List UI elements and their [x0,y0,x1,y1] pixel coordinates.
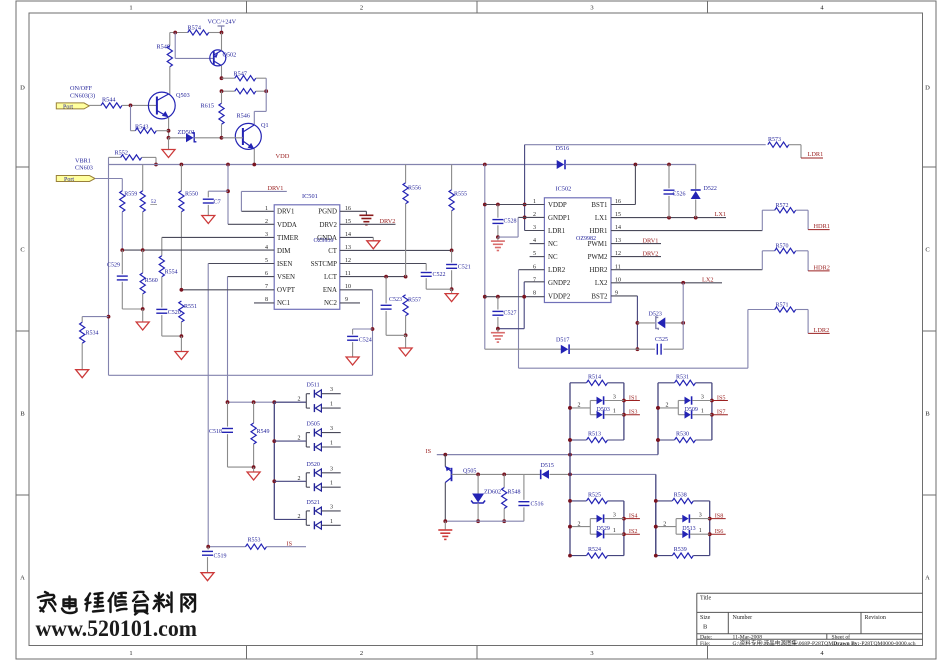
svg-text:LX2: LX2 [595,280,608,287]
svg-text:2: 2 [663,521,666,527]
IC controller IC502 box [544,198,611,303]
svg-text:Port: Port [64,177,74,183]
ground under C527 (earth bars) [497,329,499,333]
svg-text:R514: R514 [588,374,601,380]
wire VSEN vertical down [227,277,229,403]
svg-text:VDD: VDD [276,153,290,160]
svg-text:IS: IS [426,448,432,455]
svg-text:3: 3 [590,650,593,657]
wire IC502 LDR2 pin6 to bottom loop [519,269,545,271]
svg-text:R534: R534 [86,331,99,337]
svg-text:ISEN: ISEN [277,261,292,268]
wire Q505 bottom rail [445,520,524,522]
svg-text:LCT: LCT [324,274,338,281]
svg-text:LDR1: LDR1 [548,228,566,235]
wire IC502 GNDP2 pin7 loop [524,281,544,283]
svg-text:1: 1 [330,519,333,525]
svg-text:2: 2 [298,476,301,482]
svg-text:R544: R544 [102,97,115,104]
wire IC502 PWM2 pin12 stub [611,256,661,258]
wire IC502 BST1 pin16 [611,204,635,206]
label IS8 [710,518,726,520]
svg-text:C528: C528 [504,218,517,224]
wire IC502 HDR2 pin11 to R570 [611,269,762,271]
label IS5 [712,400,728,402]
svg-text:R539: R539 [674,547,687,553]
wire VDDP left vertical (bus to D517 line) [484,165,486,350]
svg-text:DRV1: DRV1 [643,238,659,245]
svg-text:SSTCMP: SSTCMP [311,261,338,268]
svg-text:LX1: LX1 [595,215,608,222]
wire LX2 vertical [682,283,684,349]
svg-text:C524: C524 [359,338,372,344]
wire VDD bus right of D516 [565,164,696,166]
svg-text:VDDA: VDDA [277,222,297,229]
wire long horizontal to ENA [109,374,373,376]
svg-text:ENA: ENA [323,287,337,294]
title block [697,592,923,594]
svg-text:C: C [925,247,929,254]
svg-text:R554: R554 [165,269,178,275]
wire IC501 ISEN pin5 [208,263,274,265]
svg-text:3: 3 [330,426,333,432]
svg-text:C: C [20,247,24,254]
svg-text:IS: IS [287,540,293,547]
ground under C528 (earth bars) [497,237,499,241]
svg-text:LDR2: LDR2 [548,267,566,274]
ground under C519 [201,573,214,581]
svg-text:3: 3 [330,504,333,510]
svg-text:LX1: LX1 [715,211,727,218]
svg-text:D522: D522 [704,186,717,192]
resistor R561 (small label) [142,165,144,191]
svg-text:B: B [703,624,707,631]
svg-text:G:\资料专用\液晶电源图集\068P-P28TQMDraw: G:\资料专用\液晶电源图集\068P-P28TQMDrawn By:-P28T… [733,639,916,647]
svg-text:GNDP2: GNDP2 [548,280,571,287]
label IS4 [624,518,640,520]
svg-text:GNDP1: GNDP1 [548,215,571,222]
svg-text:Size: Size [700,615,711,621]
wire Q1 base [222,137,243,139]
wire IC502 LX1 pin15 [611,217,726,219]
wire Q1 emitter to VDD bus [253,149,255,165]
svg-text:IS1: IS1 [629,394,638,401]
svg-text:IS2: IS2 [629,528,638,535]
svg-text:Q502: Q502 [223,52,237,59]
svg-text:3: 3 [613,512,616,518]
svg-text:NC: NC [548,241,558,248]
label IS7 [712,414,728,416]
wire IC502 NC pin4 stub [530,243,545,245]
wire D515 line to right groups [570,473,656,475]
svg-text:1: 1 [265,206,268,212]
svg-text:1: 1 [129,650,132,657]
wire IC501 DIM pin4 [122,249,274,251]
wire IC502 PWM1 pin13 stub [611,243,661,245]
ground GNDA [372,237,374,240]
node VCC junction [220,31,224,35]
svg-text:HDR1: HDR1 [590,228,609,235]
svg-text:C527: C527 [504,310,517,316]
svg-text:1: 1 [330,402,333,408]
svg-text:LX2: LX2 [702,276,714,283]
svg-text:7: 7 [533,277,536,283]
wire IC501 NC1 pin8 stub [254,302,274,304]
IC op-amp/controller IC501 box [274,205,340,309]
svg-text:DRV2: DRV2 [380,218,396,225]
svg-text:IS4: IS4 [629,512,638,519]
svg-text:3: 3 [590,5,593,12]
capacitor C524 [353,328,373,330]
watermark chinese characters [38,592,195,615]
label IS1 [624,400,640,402]
svg-text:B: B [20,411,25,418]
svg-text:R550: R550 [185,192,198,198]
wire D509 group verticals [657,383,659,440]
svg-text:C520: C520 [168,310,181,316]
svg-text:DRV2: DRV2 [643,251,659,258]
svg-text:PGND: PGND [318,209,337,216]
wire IC501 CT pin13 [340,249,452,251]
svg-text:BST1: BST1 [591,202,608,209]
port ON/OFF [56,103,89,109]
svg-text:C525: C525 [655,337,668,343]
wire IC502 LDR1 pin3 [525,230,545,232]
wire Q505 base right [452,473,524,475]
svg-text:C518: C518 [209,429,222,435]
svg-text:A: A [925,575,930,582]
svg-text:B: B [925,411,930,418]
svg-text:HDR2: HDR2 [590,267,609,274]
svg-text:VBR1: VBR1 [75,157,91,164]
svg-text:Q1: Q1 [261,122,269,129]
wire R574 to R549 [169,33,171,46]
svg-text:1: 1 [613,409,616,415]
svg-text:File:: File: [700,641,711,647]
svg-text:R513: R513 [588,432,601,438]
svg-text:3: 3 [330,466,333,472]
resistor R546 (parallel) [222,90,235,92]
wire D503 group verticals [569,383,571,440]
svg-text:1: 1 [129,5,132,12]
wire left rail (R552 to lower area) [108,157,110,375]
wire Q502 emitter to VCC [221,33,223,51]
svg-text:1: 1 [699,528,702,534]
wire IC501 ENA pin10 [340,289,373,291]
svg-text:DRV2: DRV2 [320,222,338,229]
svg-text:2: 2 [298,397,301,403]
wire VDD bus [109,164,558,166]
svg-text:D: D [925,85,930,92]
svg-text:BST2: BST2 [591,293,608,300]
svg-text:VDDP: VDDP [548,202,567,209]
svg-text:Q503: Q503 [176,92,190,99]
wire IC502 VDDP2 pin8 [485,296,545,298]
svg-text:2: 2 [360,5,363,12]
svg-text:CN603(3): CN603(3) [70,93,95,100]
ground under R551 [180,336,182,351]
svg-text:A: A [20,575,25,582]
svg-text:R549: R549 [257,429,270,435]
wire IC501 TIMER pin3 [162,236,274,238]
wire IC502 NC pin5 stub [530,256,545,258]
svg-text:R548: R548 [508,490,521,496]
svg-text:NC1: NC1 [277,300,291,307]
svg-text:2: 2 [298,514,301,520]
svg-text:3: 3 [330,387,333,393]
wire IC502 HDR1 pin14 to R572 [611,230,762,232]
wire right side of R547/R546 to Q1 collector [265,78,267,111]
svg-text:R531: R531 [676,374,689,380]
wire VBR1 port to R559 [95,178,122,180]
svg-text:R553: R553 [248,538,261,544]
ground under R557/C523 [405,335,407,348]
svg-text:CT: CT [328,248,338,255]
svg-text:D515: D515 [541,463,554,469]
svg-text:Sheet of: Sheet of [832,633,851,640]
svg-text:D520: D520 [307,462,320,468]
svg-text:IS3: IS3 [629,409,638,416]
svg-text:2: 2 [578,521,581,527]
svg-text:R555: R555 [454,192,467,198]
wire top loop (LDR1 net) [525,144,766,146]
svg-text:LDR1: LDR1 [808,151,824,158]
svg-text:HDR1: HDR1 [814,223,830,230]
svg-text:8: 8 [533,290,536,296]
svg-text:R615: R615 [201,103,214,110]
svg-text:R551: R551 [184,304,197,310]
svg-text:ZD602: ZD602 [484,490,501,496]
svg-text:D511: D511 [307,383,320,389]
svg-text:CN603: CN603 [75,165,93,172]
wire IS line [437,454,658,456]
svg-text:R557: R557 [408,298,421,304]
label IS2 [624,533,640,535]
wire IC502 GNDP1 pin2 loop [518,216,544,218]
svg-text:Port: Port [63,104,73,110]
svg-text:C523: C523 [389,297,402,303]
svg-text:3: 3 [699,512,702,518]
resistor R534 [82,316,108,318]
label IS3 [624,414,640,416]
svg-text:PWM2: PWM2 [588,254,608,261]
svg-text:OVPT: OVPT [277,287,296,294]
wire Q502 base [173,31,177,35]
svg-text:2: 2 [298,436,301,442]
svg-text:1: 1 [613,528,616,534]
svg-text:Date:: Date: [700,634,713,640]
svg-text:R530: R530 [676,432,689,438]
svg-text:R559: R559 [124,192,137,198]
ground under C7 [207,210,209,216]
svg-text:Revision: Revision [865,615,886,621]
svg-text:3: 3 [613,394,616,400]
wire IC501 SSTCMP pin12 [340,263,426,265]
wire IC502 VDDP pin1 [485,204,545,206]
wire IC501 GNDA pin14 [340,236,374,238]
wire D513 group verticals [655,501,657,556]
ground under R534 [76,370,89,378]
svg-text:7: 7 [265,284,268,290]
svg-text:GNDA: GNDA [317,235,337,242]
svg-text:IS7: IS7 [717,409,726,416]
ground under C524 [352,352,354,357]
svg-text:R556: R556 [408,186,421,192]
wire Q502 collector down [221,66,223,79]
svg-text:1: 1 [330,481,333,487]
svg-text:LDR2: LDR2 [814,327,830,334]
svg-text:www.520101.com: www.520101.com [36,616,198,642]
ground under Q505 (earth bars) [444,521,446,530]
svg-text:2: 2 [666,403,669,409]
svg-text:Number: Number [733,615,753,621]
wire IC501 VSEN pin6 [228,276,275,278]
svg-text:VSEN: VSEN [277,274,295,281]
svg-text:IC501: IC501 [302,193,318,200]
svg-text:2: 2 [360,650,363,657]
svg-text:D: D [20,85,25,92]
svg-text:D516: D516 [556,145,570,152]
svg-text:IS6: IS6 [715,528,724,535]
svg-text:C529: C529 [107,263,120,269]
wire group2 vertical to IS line [657,440,659,455]
svg-text:NC2: NC2 [324,300,338,307]
svg-text:HDR2: HDR2 [814,264,830,271]
port VBR1 [56,176,95,182]
svg-text:R524: R524 [588,547,601,553]
ground under R549b [253,467,255,472]
svg-text:D505: D505 [307,422,320,428]
wire IC501 PGND pin16 [340,210,367,212]
wire group1 vertical through IS and D515 lines [569,440,571,501]
svg-text:11-Mar-2008: 11-Mar-2008 [733,634,763,640]
svg-text:1: 1 [701,409,704,415]
wire ISEN vertical to IS sense [207,264,209,547]
svg-text:C516: C516 [531,502,544,508]
node bus junctions [180,163,184,167]
ground under Q503 emitter [168,138,170,150]
svg-text:ON/OFF: ON/OFF [70,85,93,92]
wire IC501 DRV2 pin15 [340,223,396,225]
wire C518 node horizontal [228,401,307,403]
svg-text:Q505: Q505 [463,469,476,475]
svg-text:VDDP2: VDDP2 [548,293,571,300]
wire D529 group verticals [569,501,571,556]
svg-text:Title: Title [700,596,711,602]
svg-text:R538: R538 [674,492,687,498]
svg-text:D521: D521 [307,500,320,506]
ground under C521/C522 [451,289,453,293]
svg-text:C519: C519 [214,554,227,560]
wire IC501 LCT pin11 [340,276,406,278]
wire IC502 LX2 pin10 [611,282,722,284]
svg-text:R546: R546 [237,113,250,120]
wire IC501 VDDA pin2 [228,223,274,225]
wire bottom loop (LDR2 net) [519,367,748,369]
wire IC501 NC2 pin9 stub [340,302,360,304]
svg-text:DRV1: DRV1 [277,209,295,216]
svg-text:TIMER: TIMER [277,235,299,242]
ground PGND (earth bars) [365,211,367,215]
svg-text:1: 1 [330,441,333,447]
svg-text:IS8: IS8 [715,512,724,519]
svg-text:C7: C7 [214,199,221,206]
wire diode-array vertical [273,402,275,519]
wire IC501 OVPT pin7 [181,289,274,291]
svg-text:R560: R560 [145,278,158,284]
svg-text:R525: R525 [588,492,601,498]
ground under R560 [142,309,144,322]
svg-text:2: 2 [578,403,581,409]
svg-text:10: 10 [345,284,351,290]
svg-text:VCC/+24V: VCC/+24V [208,19,237,26]
svg-text:IS5: IS5 [717,394,726,401]
svg-text:D517: D517 [556,338,569,344]
svg-text:C521: C521 [458,265,471,271]
svg-text:3: 3 [701,394,704,400]
label IS6 [710,533,726,535]
svg-text:IC502: IC502 [556,186,572,193]
svg-text:PWM1: PWM1 [588,241,608,248]
wire Q503 emitter down [168,117,170,138]
svg-text:9: 9 [345,297,348,303]
svg-text:C522: C522 [433,272,446,278]
node group1 vertical junctions [568,438,572,442]
svg-text:NC: NC [548,254,558,261]
svg-text:DIM: DIM [277,248,290,255]
wire IC502 BST2 pin9 [611,295,637,297]
wire VDDA vertical with C7 branch [227,165,229,225]
svg-text:8: 8 [265,297,268,303]
